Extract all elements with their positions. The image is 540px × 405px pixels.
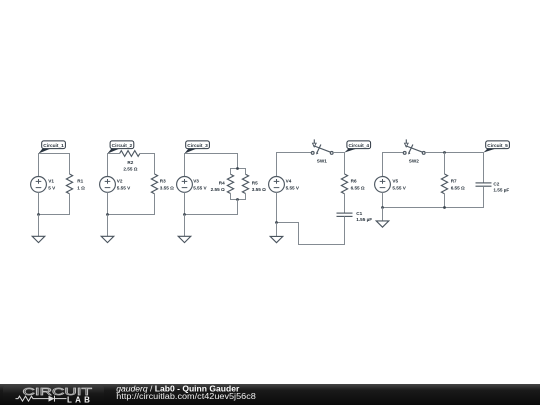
- wire c4 V4 bottom: [276, 192, 278, 222]
- svg-text:SW1: SW1: [317, 159, 327, 164]
- svg-text:3.55 Ω: 3.55 Ω: [252, 187, 266, 192]
- resistor R2: [120, 151, 140, 157]
- wire c5 bottom rail: [383, 186, 484, 207]
- flag Circuit_4: [345, 141, 371, 153]
- svg-text:2.55 Ω: 2.55 Ω: [123, 166, 137, 171]
- ground c3: [178, 215, 191, 243]
- logo resistor-diode glyph: [16, 396, 67, 402]
- svg-text:V4: V4: [286, 179, 292, 184]
- ground c4: [270, 223, 283, 243]
- svg-text:5.55 V: 5.55 V: [286, 185, 300, 190]
- svg-text:SW2: SW2: [409, 159, 419, 164]
- node dot c5 top: [443, 151, 446, 154]
- svg-text:R3: R3: [160, 179, 166, 184]
- voltage source V3: [177, 177, 193, 193]
- wire c3 bottom rail: [185, 192, 238, 214]
- svg-text:Circuit_4: Circuit_4: [349, 143, 370, 148]
- svg-text:C1: C1: [356, 211, 362, 216]
- wire c5 R7 top stub: [444, 153, 446, 175]
- voltage source V2: [100, 177, 116, 193]
- node dot c1: [37, 213, 40, 216]
- node dot c4: [275, 221, 278, 224]
- node dot c5 r7: [443, 206, 446, 209]
- wire c5 R7 bottom stub: [444, 194, 446, 208]
- svg-text:2.55 Ω: 2.55 Ω: [211, 187, 225, 192]
- svg-text:LAB: LAB: [67, 396, 93, 405]
- resistor R1: [66, 174, 72, 194]
- wire c3 top rail: [185, 154, 238, 177]
- svg-text:R4: R4: [219, 180, 225, 185]
- svg-text:1.55 µF: 1.55 µF: [493, 188, 509, 193]
- flag Circuit_5: [484, 141, 510, 153]
- ground c5: [376, 208, 389, 228]
- node dot c3 top: [236, 167, 239, 170]
- svg-text:R6: R6: [351, 179, 357, 184]
- svg-text:5.55 V: 5.55 V: [392, 185, 406, 190]
- logo button: [3, 386, 104, 404]
- svg-text:R5: R5: [252, 180, 258, 185]
- wire c3 parallel top bar: [231, 169, 246, 175]
- capacitor C1: [337, 213, 353, 216]
- ground c2: [101, 215, 114, 243]
- resistor R4: [227, 174, 233, 193]
- flag Circuit_3: [185, 141, 210, 154]
- svg-text:V5: V5: [392, 179, 398, 184]
- wire c3 parallel bottom bar: [231, 194, 246, 200]
- svg-text:Circuit_2: Circuit_2: [112, 143, 133, 148]
- node dot c5 left: [381, 206, 384, 209]
- ground c1: [32, 215, 45, 243]
- wire c2 top-left: [108, 154, 120, 177]
- wire c4 switch to corner: [333, 153, 344, 175]
- resistor R5: [242, 174, 248, 193]
- svg-text:1.55 µF: 1.55 µF: [356, 217, 372, 222]
- voltage source V4: [269, 177, 285, 193]
- svg-text:R2: R2: [127, 160, 133, 165]
- resistor R7: [441, 174, 447, 194]
- wire c4 top-left: [277, 153, 312, 177]
- svg-text:5.55 V: 5.55 V: [193, 185, 207, 190]
- wire c2 bottom rail: [108, 192, 155, 214]
- wire c2 top-right: [140, 154, 155, 175]
- wire c5 switch to C2 corner: [425, 153, 483, 183]
- wire c5 top-left: [383, 153, 404, 177]
- wire c4 bottom jog: [277, 216, 345, 244]
- svg-text:V2: V2: [117, 179, 123, 184]
- node dot c3 mid: [236, 198, 239, 201]
- svg-text:http://circuitlab.com/ct42uev5: http://circuitlab.com/ct42uev5j56c8: [116, 392, 256, 401]
- svg-text:C2: C2: [493, 181, 499, 186]
- capacitor C2: [476, 183, 492, 186]
- svg-text:6.55 Ω: 6.55 Ω: [451, 185, 465, 190]
- resistor R6: [341, 174, 347, 194]
- voltage source V5: [375, 177, 391, 193]
- wire c1 top rail: [39, 154, 70, 177]
- node dot c2: [106, 213, 109, 216]
- svg-text:R7: R7: [451, 179, 457, 184]
- svg-text:V1: V1: [48, 179, 54, 184]
- flag Circuit_1: [39, 141, 66, 154]
- voltage source V1: [31, 177, 47, 193]
- svg-text:Circuit_5: Circuit_5: [487, 143, 508, 148]
- svg-text:3.55 Ω: 3.55 Ω: [160, 185, 174, 190]
- flag Circuit_2: [108, 141, 134, 154]
- node dot c3 left: [183, 213, 186, 216]
- switch SW2: [403, 139, 425, 154]
- switch SW1: [311, 139, 333, 154]
- wire c4 R6 to C1: [344, 194, 346, 213]
- svg-text:6.55 Ω: 6.55 Ω: [351, 185, 365, 190]
- svg-text:Circuit_1: Circuit_1: [43, 143, 64, 148]
- svg-text:1 Ω: 1 Ω: [77, 185, 85, 190]
- svg-text:R1: R1: [77, 179, 83, 184]
- svg-text:5 V: 5 V: [48, 185, 56, 190]
- svg-text:Circuit_3: Circuit_3: [187, 143, 208, 148]
- svg-text:V3: V3: [193, 179, 199, 184]
- wire c1 bottom rail: [39, 192, 70, 214]
- svg-text:5.55 V: 5.55 V: [117, 185, 131, 190]
- resistor R3: [151, 174, 157, 194]
